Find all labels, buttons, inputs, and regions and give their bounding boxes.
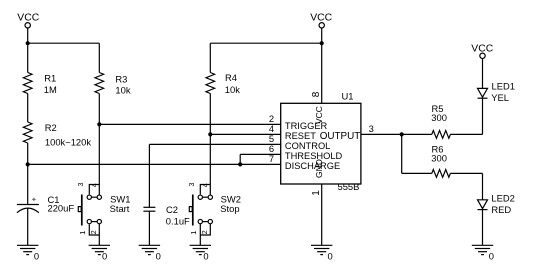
svg-text:C2: C2 — [166, 204, 178, 215]
svg-text:300: 300 — [431, 153, 447, 164]
svg-text:0: 0 — [34, 251, 39, 262]
svg-text:0: 0 — [203, 251, 208, 262]
svg-text:3: 3 — [369, 123, 374, 134]
svg-text:2: 2 — [89, 230, 98, 234]
svg-text:Stop: Stop — [220, 203, 239, 214]
svg-text:220uF: 220uF — [48, 203, 75, 214]
svg-text:8: 8 — [311, 91, 322, 97]
svg-text:0: 0 — [102, 251, 107, 262]
svg-text:0.1uF: 0.1uF — [166, 216, 190, 227]
svg-text:GND: GND — [314, 159, 324, 178]
svg-text:CONTROL: CONTROL — [285, 141, 330, 151]
svg-text:VCC: VCC — [310, 12, 332, 23]
svg-text:10k: 10k — [115, 85, 130, 96]
svg-text:DISCHARGE: DISCHARGE — [285, 161, 340, 171]
svg-text:U1: U1 — [342, 90, 354, 101]
svg-text:1: 1 — [189, 231, 198, 235]
svg-text:7: 7 — [269, 153, 274, 164]
svg-text:VCC: VCC — [471, 44, 493, 55]
svg-text:2: 2 — [200, 230, 209, 234]
svg-text:YEL: YEL — [491, 92, 509, 103]
svg-text:0: 0 — [489, 251, 494, 262]
svg-text:RED: RED — [491, 204, 511, 215]
svg-text:4: 4 — [200, 183, 209, 187]
svg-text:100k~120k: 100k~120k — [45, 136, 91, 147]
svg-text:1: 1 — [78, 231, 87, 235]
svg-text:555B: 555B — [338, 181, 360, 192]
svg-text:3: 3 — [76, 183, 85, 187]
svg-text:Start: Start — [110, 203, 130, 214]
svg-text:10k: 10k — [225, 84, 240, 95]
svg-text:R2: R2 — [45, 122, 57, 133]
svg-text:LED2: LED2 — [491, 192, 514, 203]
svg-text:1M: 1M — [44, 84, 57, 95]
svg-text:LED1: LED1 — [492, 81, 515, 92]
svg-text:VCC: VCC — [17, 13, 39, 24]
svg-text:300: 300 — [431, 112, 447, 123]
svg-text:4: 4 — [89, 183, 98, 187]
svg-text:0: 0 — [328, 251, 333, 262]
svg-text:1: 1 — [311, 190, 322, 196]
svg-text:RESET: RESET — [285, 131, 316, 141]
svg-text:VCC: VCC — [314, 106, 324, 124]
svg-text:3: 3 — [187, 183, 196, 187]
svg-text:R4: R4 — [225, 72, 237, 83]
svg-text:R3: R3 — [115, 73, 127, 84]
svg-text:R1: R1 — [44, 73, 56, 84]
svg-text:0: 0 — [156, 251, 161, 262]
